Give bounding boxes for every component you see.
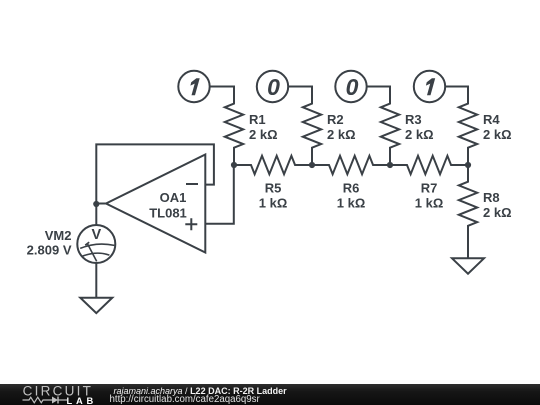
svg-text:TL081: TL081	[149, 206, 187, 221]
svg-text:R8: R8	[483, 190, 500, 205]
svg-text:2 kΩ: 2 kΩ	[483, 205, 512, 220]
svg-text:1 kΩ: 1 kΩ	[259, 196, 288, 211]
svg-text:R4: R4	[483, 112, 500, 127]
svg-text:2.809 V: 2.809 V	[27, 243, 72, 258]
svg-text:VM2: VM2	[45, 228, 72, 243]
svg-text:2 kΩ: 2 kΩ	[327, 127, 356, 142]
svg-text:R7: R7	[421, 181, 438, 196]
svg-text:2 kΩ: 2 kΩ	[483, 127, 512, 142]
svg-text:OA1: OA1	[160, 190, 187, 205]
svg-text:R2: R2	[327, 112, 344, 127]
svg-text:LAB: LAB	[67, 396, 98, 405]
svg-text:V: V	[91, 227, 101, 243]
svg-text:2 kΩ: 2 kΩ	[249, 127, 278, 142]
svg-text:R6: R6	[343, 181, 360, 196]
svg-text:R1: R1	[249, 112, 266, 127]
svg-text:1 kΩ: 1 kΩ	[337, 196, 366, 211]
svg-text:R5: R5	[265, 181, 282, 196]
svg-text:R3: R3	[405, 112, 422, 127]
svg-text:0: 0	[346, 74, 359, 100]
svg-text:2 kΩ: 2 kΩ	[405, 127, 434, 142]
svg-text:1 kΩ: 1 kΩ	[415, 196, 444, 211]
svg-text:0: 0	[267, 74, 280, 100]
